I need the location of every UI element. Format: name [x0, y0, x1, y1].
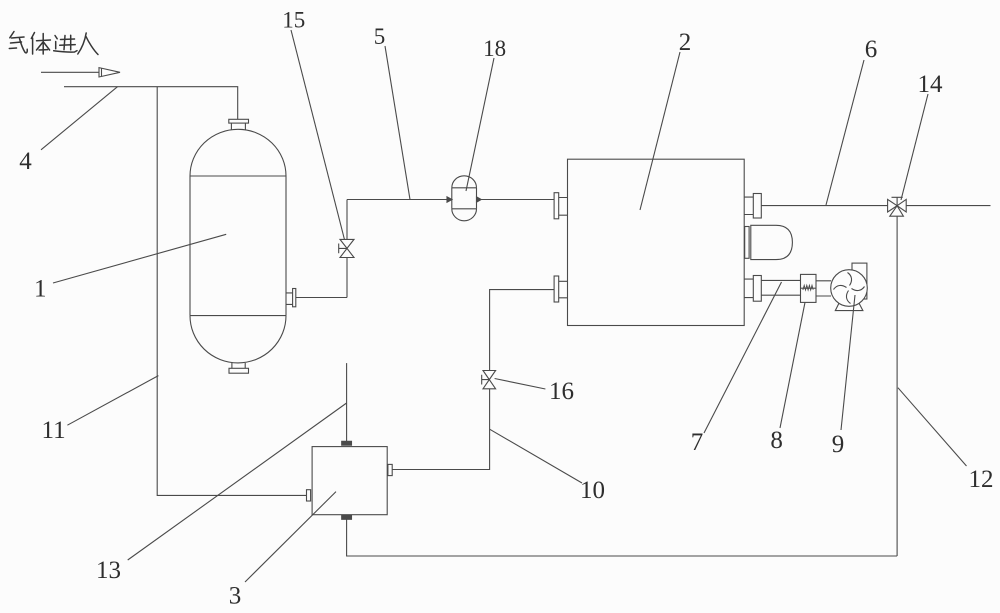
leader 14: [901, 94, 928, 200]
svg-text:5: 5: [374, 24, 386, 49]
tank T1 bottom nozzle: [232, 363, 245, 368]
svg-text:2: 2: [679, 29, 692, 56]
wire side pipe to valve V15: [296, 297, 347, 299]
leader 3: [245, 492, 336, 582]
motor M flange: [745, 227, 749, 259]
motor M body: [751, 225, 793, 259]
svg-text:12: 12: [969, 466, 994, 493]
leader 15: [291, 30, 345, 240]
leader 10: [490, 429, 582, 483]
svg-text:6: 6: [865, 36, 878, 63]
box 3 top pipe: [346, 363, 348, 441]
leader 1: [53, 234, 226, 283]
leader 4: [41, 87, 118, 150]
pipe 5 right part: [478, 199, 554, 201]
svg-text:18: 18: [483, 36, 506, 61]
wire pipe 10: [490, 290, 554, 371]
wire valve V16 to box3 pipe: [392, 389, 489, 470]
leader 11: [67, 376, 158, 426]
valve V16: [483, 371, 496, 380]
flange box2 bottom-right: [753, 276, 761, 302]
flange box2 top-left: [554, 193, 559, 219]
leader 16: [495, 379, 546, 390]
damper 8: [801, 274, 817, 302]
box 3: [312, 447, 387, 515]
svg-text:1: 1: [34, 276, 47, 303]
leader 5: [385, 46, 410, 200]
wire left vertical pipe: [157, 87, 306, 496]
box 2: [568, 159, 745, 325]
leader 7: [704, 282, 782, 433]
valve V14: [888, 199, 898, 212]
leader 6: [826, 60, 864, 205]
svg-text:13: 13: [96, 557, 121, 584]
box 3 bottom flange: [342, 515, 352, 519]
tank T1 top flange: [229, 119, 249, 123]
wire valve V14 down: [896, 216, 898, 556]
flange box2 top-right: [753, 194, 761, 219]
valve V15: [340, 239, 354, 248]
svg-text:9: 9: [832, 431, 845, 458]
duct d1: [761, 280, 800, 295]
wire bottom pipe: [347, 519, 898, 556]
svg-text:10: 10: [580, 477, 605, 504]
box 3 left flange: [307, 490, 311, 501]
leader 13: [128, 403, 347, 560]
text 气体进入: [9, 32, 98, 55]
leader 12: [898, 388, 967, 466]
svg-text:3: 3: [229, 583, 242, 610]
svg-text:7: 7: [691, 429, 704, 456]
duct d2: [816, 281, 831, 296]
fan 9 outlet: [852, 263, 867, 299]
leader 18: [466, 58, 494, 191]
inlet arrow: [41, 71, 99, 73]
pipe 6 outlet: [906, 205, 990, 207]
leader 8: [780, 302, 805, 428]
leader 2: [640, 52, 680, 210]
tank T1 vessel: [190, 129, 286, 176]
wire top pipe: [64, 87, 238, 120]
wire valve V15 to pipe 5: [346, 200, 348, 240]
pipe 5: [347, 199, 448, 201]
fan 9 casing: [831, 270, 868, 307]
tank T1 side nozzle: [286, 293, 293, 305]
flow arrow a1: [447, 197, 452, 202]
svg-text:8: 8: [770, 427, 783, 454]
separator 18: [452, 176, 477, 188]
flow arrow a2: [477, 197, 482, 202]
flange box2 bottom-left: [554, 276, 559, 302]
svg-text:11: 11: [42, 417, 66, 444]
svg-text:4: 4: [19, 148, 32, 175]
box 3 right flange: [388, 464, 392, 475]
pipe 6: [761, 205, 887, 207]
svg-text:14: 14: [918, 71, 944, 98]
fan 9 impeller: [834, 273, 865, 304]
fan 9 stand: [835, 303, 863, 311]
box 3 top flange: [342, 441, 352, 445]
svg-text:16: 16: [549, 378, 574, 405]
svg-text:15: 15: [282, 8, 305, 33]
leader 9: [841, 295, 855, 430]
